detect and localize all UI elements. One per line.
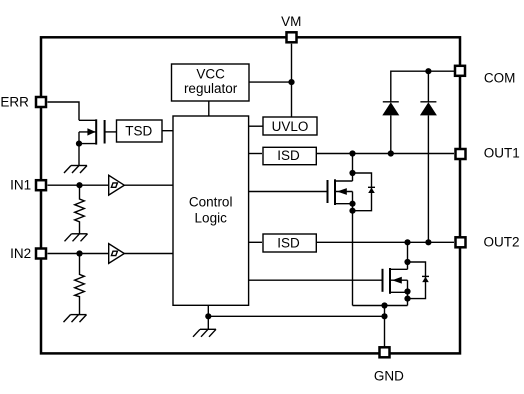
svg-text:IN2: IN2	[10, 246, 31, 261]
svg-text:ERR: ERR	[0, 95, 29, 110]
svg-text:regulator: regulator	[184, 81, 238, 96]
svg-text:VCC: VCC	[196, 67, 225, 82]
svg-text:VM: VM	[281, 14, 301, 29]
svg-text:ISD: ISD	[277, 148, 300, 163]
svg-text:TSD: TSD	[125, 123, 152, 138]
svg-text:OUT2: OUT2	[483, 234, 519, 249]
svg-text:COM: COM	[484, 70, 516, 85]
svg-text:UVLO: UVLO	[272, 119, 309, 134]
svg-text:ISD: ISD	[277, 235, 300, 250]
svg-text:Logic: Logic	[195, 210, 228, 225]
svg-text:OUT1: OUT1	[484, 146, 520, 161]
svg-text:IN1: IN1	[10, 178, 31, 193]
svg-text:Control: Control	[189, 195, 233, 210]
svg-text:GND: GND	[374, 369, 404, 384]
